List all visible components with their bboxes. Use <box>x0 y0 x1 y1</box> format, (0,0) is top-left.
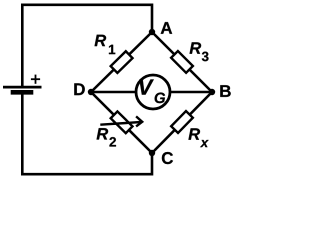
node B label <box>220 85 230 97</box>
wire: node D to node C <box>91 92 152 153</box>
resistor R1 value label <box>95 35 116 54</box>
resistor R3 body <box>171 51 193 73</box>
wire: node D to node A <box>91 32 152 92</box>
galvanometer VG body <box>136 75 170 109</box>
wire: battery positive terminal up and across top to node A <box>22 5 152 86</box>
wire: node D to node B through galvanometer <box>91 91 212 94</box>
battery BT1 negative plate <box>11 90 34 95</box>
resistor R2 body (variable) <box>111 111 133 133</box>
galvanometer VG label <box>139 79 165 103</box>
battery BT1 plus polarity mark <box>31 75 40 84</box>
node C junction dot <box>149 150 155 156</box>
resistor Rx value label <box>188 128 208 147</box>
resistor R1 body <box>111 51 133 73</box>
node B junction dot <box>209 89 215 95</box>
resistor R3 value label <box>190 42 209 61</box>
node C label <box>162 152 173 164</box>
node D junction dot <box>88 89 94 95</box>
battery BT1 positive plate <box>3 86 42 89</box>
node D label <box>74 83 84 95</box>
wire: battery negative terminal down and across bottom to node C <box>22 93 152 174</box>
resistor R2 wiper arrow <box>100 116 142 126</box>
node A junction dot <box>149 29 155 35</box>
resistor Rx body <box>171 111 193 133</box>
node A label <box>161 22 172 34</box>
resistor R2 value label <box>97 128 116 146</box>
wire: node C to node B <box>152 92 212 153</box>
wire: node A to node B <box>152 32 212 92</box>
